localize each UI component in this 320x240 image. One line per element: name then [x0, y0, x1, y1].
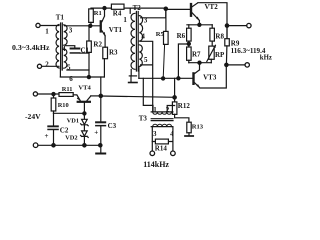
wire low feed to R12 column	[101, 96, 175, 97]
node C2 bottom	[52, 144, 55, 147]
svg-text:R5: R5	[156, 31, 165, 38]
ground bottom	[96, 145, 105, 153]
svg-text:RP: RP	[215, 51, 225, 59]
right winding 3-4	[64, 25, 67, 45]
bottom rail	[38, 144, 101, 146]
resistor R6	[187, 25, 192, 47]
capacitor C1	[65, 46, 89, 54]
svg-text:R7: R7	[192, 51, 201, 59]
svg-text:R2: R2	[93, 40, 102, 48]
zener VD1	[81, 119, 89, 131]
pin3 lead	[151, 127, 153, 151]
svg-text:4: 4	[141, 33, 145, 41]
primary winding	[131, 13, 135, 69]
svg-text:R6: R6	[177, 32, 186, 40]
transistor VT1	[100, 8, 106, 47]
potentiometer RP	[207, 44, 216, 62]
resistor R8	[210, 25, 215, 46]
wire out bottom	[226, 64, 245, 66]
output terminal bottom	[245, 63, 249, 67]
resistor R1	[89, 9, 94, 26]
transistor VT2	[190, 3, 227, 39]
svg-text:C3: C3	[108, 122, 117, 130]
svg-text:VT2: VT2	[205, 3, 219, 11]
wire T1 pin6 stub	[59, 68, 61, 77]
node base	[89, 24, 92, 27]
svg-text:C1: C1	[81, 47, 90, 55]
wire T2 pin4 elbow	[141, 41, 153, 112]
svg-text:C2: C2	[60, 126, 69, 134]
wire to feedback	[178, 44, 188, 78]
wire	[38, 93, 59, 95]
node VD bottom	[83, 144, 86, 147]
core	[136, 12, 138, 72]
svg-text:+: +	[45, 132, 49, 140]
transistor VT4	[73, 95, 101, 120]
transformer T2	[131, 12, 143, 72]
svg-text:6: 6	[69, 75, 73, 83]
svg-text:kHz: kHz	[260, 55, 272, 62]
svg-text:2: 2	[166, 106, 170, 114]
node C3 bottom	[99, 144, 102, 147]
node VT3 collector	[198, 61, 201, 64]
resistor R2	[87, 26, 92, 77]
node R10 tap	[52, 93, 55, 96]
resistor R4	[111, 4, 124, 9]
svg-text:VT1: VT1	[109, 26, 123, 34]
resistor R7	[187, 47, 192, 63]
capacitor C2	[47, 113, 59, 145]
svg-text:4: 4	[170, 130, 174, 138]
svg-text:R13: R13	[192, 123, 204, 130]
resistor R11	[59, 93, 73, 97]
resistor R9	[225, 26, 230, 65]
svg-text:R14: R14	[155, 145, 168, 153]
svg-text:3: 3	[144, 17, 148, 25]
node VT2 emitter	[198, 23, 201, 26]
svg-text:1: 1	[153, 106, 157, 114]
svg-text:T2: T2	[133, 4, 142, 12]
resistor R3	[103, 47, 108, 77]
wire	[40, 25, 59, 27]
resistor R12	[172, 78, 189, 122]
ground under T2 primary	[129, 70, 137, 83]
carrier terminal left	[150, 151, 155, 156]
svg-text:R8: R8	[215, 32, 224, 40]
power input terminal bottom	[33, 143, 38, 148]
secondary winding 5	[139, 45, 142, 67]
output terminal top	[247, 23, 251, 27]
svg-text:R3: R3	[109, 49, 118, 57]
node out bottom	[225, 63, 228, 66]
bottom winding + line	[153, 124, 172, 126]
svg-text:R9: R9	[231, 39, 240, 47]
svg-text:T1: T1	[56, 14, 65, 22]
pin2 riser	[167, 106, 174, 112]
wire T2 bottom to mid rail	[138, 67, 140, 79]
svg-text:VD2: VD2	[65, 134, 77, 141]
wire R7-RP bottom bus	[189, 62, 212, 64]
node collector-rail	[103, 7, 106, 10]
svg-text:0.3~3.4kHz: 0.3~3.4kHz	[12, 43, 50, 52]
svg-text:R1: R1	[94, 10, 102, 17]
carrier terminal right	[171, 151, 176, 156]
secondary winding 3-4	[139, 16, 142, 41]
node feedback-rail	[177, 77, 180, 80]
wire emitter bus	[187, 24, 212, 26]
transistor VT3	[192, 63, 226, 89]
wire T1 pin5	[67, 69, 89, 71]
wire	[42, 65, 59, 67]
node R12 column	[173, 96, 176, 99]
svg-text:1: 1	[123, 16, 127, 24]
mid rail	[139, 77, 192, 79]
resistor R14	[152, 139, 173, 144]
node power cross	[99, 94, 102, 97]
core	[151, 119, 173, 121]
input terminal J1 bottom	[37, 64, 41, 68]
svg-text:2: 2	[45, 61, 49, 69]
svg-text:R12: R12	[178, 102, 191, 110]
svg-text:5: 5	[144, 56, 148, 64]
svg-text:VD1: VD1	[67, 118, 79, 125]
svg-text:+: +	[94, 129, 98, 137]
node top rail junction	[164, 7, 167, 10]
svg-text:VT4: VT4	[78, 85, 91, 92]
svg-text:T3: T3	[139, 115, 148, 123]
core	[61, 23, 63, 70]
svg-text:5: 5	[67, 64, 71, 72]
wire out top	[227, 25, 247, 27]
right winding 5-6	[64, 49, 67, 68]
wire T2 pin3	[141, 8, 166, 18]
svg-text:114kHz: 114kHz	[143, 160, 169, 169]
node out top	[225, 24, 228, 27]
wire R10-VD bus	[54, 112, 85, 114]
resistor R10	[51, 94, 56, 113]
top line + winding	[151, 111, 173, 113]
resistor R13	[185, 122, 193, 136]
power input terminal top	[33, 92, 37, 96]
wire T1 pin3 to VT1 base	[65, 25, 100, 27]
svg-text:R11: R11	[62, 86, 73, 93]
pin1 riser	[143, 78, 153, 112]
capacitor C3	[95, 77, 106, 145]
transformer T3	[143, 78, 174, 151]
wire low horizontal	[60, 76, 104, 78]
wire to VT2 base	[166, 8, 190, 10]
node VD top	[83, 112, 86, 115]
pin4 lead	[172, 127, 174, 151]
node R2 bottom	[87, 76, 90, 79]
wire T2 top stub	[129, 8, 131, 13]
svg-text:3: 3	[153, 130, 157, 138]
svg-text:R10: R10	[58, 102, 69, 109]
zener VD2	[81, 131, 89, 145]
node R5 bottom	[162, 77, 165, 80]
svg-text:1: 1	[45, 28, 49, 36]
svg-text:VT3: VT3	[203, 73, 217, 81]
left winding	[56, 25, 59, 69]
transformer T1	[56, 23, 67, 70]
svg-text:R4: R4	[113, 9, 122, 17]
svg-text:4: 4	[62, 45, 66, 53]
resistor R5	[163, 8, 168, 78]
svg-text:3: 3	[69, 27, 73, 35]
top rail	[91, 7, 166, 9]
input terminal J1 top-left	[36, 23, 40, 27]
svg-text:-24V: -24V	[25, 112, 41, 121]
node R6-R7	[187, 42, 190, 45]
